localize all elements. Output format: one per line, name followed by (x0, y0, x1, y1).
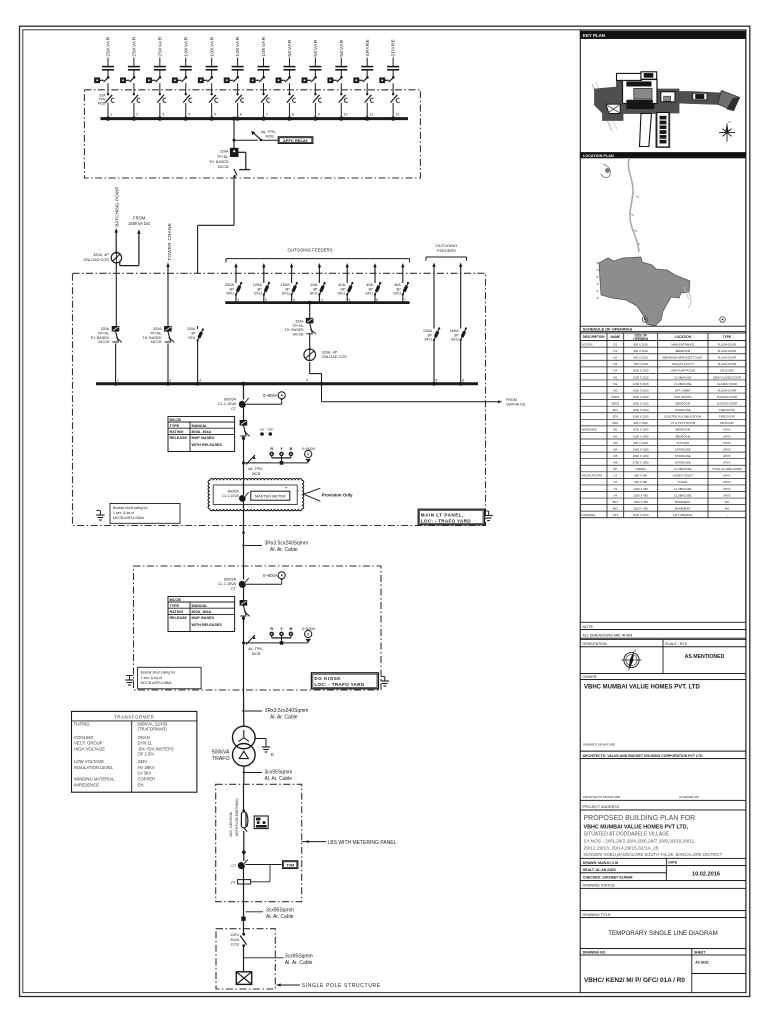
svg-text:SITUATED AT DODDABELE VILLAGE: SITUATED AT DODDABELE VILLAGE (584, 831, 671, 837)
svg-text:BASEMENT: BASEMENT (675, 506, 691, 510)
svg-text:HV 28KV: HV 28KV (138, 765, 155, 770)
svg-text:FLUSH DOOR: FLUSH DOOR (718, 388, 736, 392)
feeder arrow: FROM 160KVA DG (120, 216, 151, 266)
transformer earth E (255, 739, 274, 758)
svg-text:DESCRIPTION: DESCRIPTION (583, 335, 605, 339)
svg-text:SFU: SFU (188, 336, 196, 340)
svg-text:W7: W7 (613, 467, 618, 471)
DG kiosk enclosure (dash-dot) (134, 566, 382, 690)
svg-text:900 X 1200: 900 X 1200 (634, 441, 649, 445)
label 4A, TPN, MCB (261, 130, 276, 139)
svg-text:10.02.2016: 10.02.2016 (692, 872, 720, 878)
svg-text:TEMPORARY SINGLE LINE DIAGRAM: TEMPORARY SINGLE LINE DIAGRAM (608, 930, 717, 937)
phase indicator lamps R Y B (269, 626, 293, 644)
svg-text:TYPE: TYPE (170, 424, 180, 428)
svg-text:9: 9 (318, 112, 320, 116)
svg-text:1200 X 2100: 1200 X 2100 (633, 375, 649, 379)
svg-text:LOC: - TRAFO YARD: LOC: - TRAFO YARD (421, 519, 471, 524)
svg-text:MANUAL: MANUAL (192, 604, 209, 608)
svg-text:2: 2 (170, 379, 172, 383)
cable label 3cx95Sqmm (trafo to LBS) (243, 766, 293, 784)
phase indicator lamps R Y B (269, 446, 293, 465)
svg-text:FROM: FROM (133, 216, 146, 221)
TVM meter box (283, 861, 298, 869)
svg-text:VENTILATORS: VENTILATORS (582, 474, 603, 478)
svg-text:FLUSH DOOR: FLUSH DOOR (718, 349, 736, 353)
ONLOAD COS 320A 4P (changeover) (111, 251, 121, 263)
svg-text:Y: Y (280, 446, 283, 451)
cable label 3cx95Sqmm (LBS to COS) (246, 908, 294, 920)
wire to TVM meter (246, 864, 282, 866)
svg-text:Al. Ar. Cable: Al. Ar. Cable (266, 914, 294, 920)
svg-text:800A, 36kA: 800A, 36kA (192, 430, 212, 434)
ground (DG kiosk left) (125, 676, 133, 686)
svg-text:MS: MS (725, 506, 729, 510)
svg-text:CT: CT (231, 587, 237, 591)
svg-text:320A: 320A (295, 319, 304, 323)
DG KIOSK label box (311, 673, 378, 689)
busbar rating note box (main panel) (110, 504, 180, 524)
capacitor feeder branch 1: 25KVAR (95, 36, 115, 121)
wire: lamp/voltmeter bus (242, 461, 308, 464)
svg-text:3: 3 (199, 379, 201, 383)
KEY PLAN header bar (580, 31, 746, 39)
svg-text:--: -- (726, 513, 728, 517)
svg-text:MCCB: MCCB (170, 418, 182, 422)
svg-text:RATING: RATING (74, 722, 90, 727)
svg-text:OPENING: OPENING (582, 513, 597, 517)
svg-text:11: 11 (370, 112, 374, 116)
svg-text:OWNER'S SIGNATURE: OWNER'S SIGNATURE (583, 742, 615, 746)
svg-text:OUTGOING FEEDERS: OUTGOING FEEDERS (288, 248, 333, 253)
long outgoing feeder 160A 3P SFU (450, 263, 467, 386)
main LT panel enclosure (dash-dot) (73, 273, 486, 525)
svg-text:D3: D3 (614, 362, 618, 366)
svg-text:TP+NL: TP+NL (150, 331, 161, 335)
cable label 3Rx3.5cx240Sqmm (panel to kiosk) (242, 531, 308, 566)
svg-text:0~800A: 0~800A (263, 393, 278, 398)
svg-text:**: ** (284, 486, 288, 491)
svg-text:900 X 2100: 900 X 2100 (634, 349, 649, 353)
svg-text:FEEDERS: FEEDERS (437, 248, 456, 253)
svg-text:1000 X 2100: 1000 X 2100 (633, 369, 649, 373)
svg-text:2100 X 450: 2100 X 450 (634, 506, 649, 510)
svg-text:3cx95Sqmm: 3cx95Sqmm (265, 770, 293, 776)
svg-text:VBHC/ KEN2/ M/ P/ GFC/ 01A / R: VBHC/ KEN2/ M/ P/ GFC/ 01A / R0 (584, 977, 685, 984)
tie line: FROM 160KVA DG (322, 384, 526, 407)
AS MENTIONED (685, 654, 725, 660)
svg-text:LIBS PUMP ROOM: LIBS PUMP ROOM (671, 369, 696, 373)
svg-text:E: E (271, 752, 274, 757)
PROJECT ADDRESS row (580, 800, 746, 810)
svg-text:900 X 1500: 900 X 1500 (634, 421, 649, 425)
svg-text:SFU: SFU (393, 291, 401, 296)
label 320A TP+NL TH. BASED MCCB (209, 150, 229, 170)
svg-text:SFU: SFU (226, 291, 234, 296)
svg-text:MUP. BASED: MUP. BASED (192, 436, 215, 440)
svg-text:BV2: BV2 (613, 506, 619, 510)
location plan drawing (597, 159, 726, 326)
svg-text:FIRE DOOR: FIRE DOOR (719, 415, 735, 419)
drawing no cell (580, 955, 746, 993)
svg-text:TOTAL GLAZED WORK: TOTAL GLAZED WORK (712, 467, 742, 471)
date value cell (666, 866, 745, 881)
DRAWING TITLE row (580, 911, 746, 918)
svg-text:WD1: WD1 (612, 421, 619, 425)
svg-text:(WITH FUSE EARTHING): (WITH FUSE EARTHING) (235, 798, 239, 836)
svg-text:1 sec. & ka of: 1 sec. & ka of (141, 676, 162, 680)
architects signature cell (580, 759, 746, 801)
TRANSFORMER data table (72, 711, 197, 792)
CT 800/5A CL:1.10VA (inside cloud) (222, 490, 249, 502)
svg-text:STAIRCASE: STAIRCASE (675, 461, 691, 465)
SCALE / CHECKED rows (580, 866, 666, 881)
title block column borders (580, 30, 746, 993)
svg-text:29/12,29/13, 29/14,29/15,32/1A: 29/12,29/13, 29/14,29/15,32/1A ,25 (584, 845, 659, 851)
svg-text:SFU: SFU (451, 337, 459, 342)
svg-text:BEDROOM: BEDROOM (676, 349, 691, 353)
right OUTGOING FEEDERS bracket and title (426, 243, 467, 261)
svg-text:B: B (289, 446, 292, 451)
wire into master meter cloud (243, 463, 245, 531)
svg-text:TYPE: TYPE (723, 335, 731, 339)
svg-text:ARCHITECTS SIGNATURE: ARCHITECTS SIGNATURE (583, 795, 620, 799)
svg-text:CLUBHOUSE: CLUBHOUSE (674, 487, 692, 491)
wire with branch cable label (244, 946, 313, 972)
svg-text:10: 10 (344, 112, 348, 116)
svg-text:6: 6 (462, 378, 464, 382)
svg-text:4: 4 (306, 378, 308, 382)
metering relay box (254, 816, 268, 829)
svg-text:TH. BASED: TH. BASED (285, 328, 304, 332)
svg-text:OWNER:: OWNER: (583, 675, 598, 679)
svg-text:320A: 320A (220, 150, 229, 154)
feeder arrow: BATCHING POINT (115, 186, 120, 252)
wire (243, 407, 245, 420)
voltmeter 0~500V (302, 626, 316, 643)
wire: batching/COS down into panel (115, 263, 117, 326)
svg-text:BASEMENT: BASEMENT (675, 500, 691, 504)
capacitor panel enclosure (dash-dot) (84, 90, 420, 178)
svg-text:CLUBHOUSE: CLUBHOUSE (674, 382, 692, 386)
svg-text:BATCHING POINT: BATCHING POINT (115, 186, 120, 226)
svg-text:KEY PLAN: KEY PLAN (583, 33, 605, 38)
svg-text:4A, TPN,: 4A, TPN, (248, 467, 263, 471)
wire: DG kiosk exit (243, 643, 245, 690)
svg-text:D2: D2 (614, 356, 618, 360)
svg-text:Al. Ar. Cable: Al. Ar. Cable (270, 547, 298, 553)
MCB 4A TPN tap (246, 635, 263, 656)
wire: incomer jog to main bus (306, 362, 321, 384)
svg-text:W3: W3 (613, 441, 618, 445)
svg-text:5: 5 (435, 378, 437, 382)
LBS fuse (241, 809, 246, 827)
svg-text:800/5A: 800/5A (224, 398, 237, 402)
svg-text:CT: CT (231, 864, 237, 868)
svg-text:600 X 450: 600 X 450 (634, 474, 647, 478)
svg-text:VBHC MUMBAI VALUE HOMES PVT. L: VBHC MUMBAI VALUE HOMES PVT. LTD (584, 685, 700, 691)
svg-text:DG KIOSK: DG KIOSK (314, 676, 341, 681)
svg-text:MAIN ENTRANCE: MAIN ENTRANCE (671, 342, 694, 346)
svg-text:500kVA: 500kVA (212, 750, 230, 756)
OWNER row (580, 674, 746, 680)
APFC RELAY box (261, 137, 313, 144)
ground (main panel left) (96, 511, 104, 521)
svg-text:VECT. GROUP: VECT. GROUP (74, 741, 103, 746)
svg-text:5KVAR: 5KVAR (313, 39, 319, 56)
svg-text:1000 X 2100: 1000 X 2100 (633, 415, 649, 419)
CT 800/5A (218, 398, 249, 411)
svg-text:800/5A: 800/5A (224, 578, 237, 582)
outgoing feeder bus (225, 301, 409, 304)
svg-text:Al. Ar. Cable: Al. Ar. Cable (265, 776, 293, 782)
label LBS 11KV/630A rotated (229, 798, 239, 836)
MCCB 320A TP+NL (capacitor panel incomer) (230, 148, 250, 178)
PT with link to TVM (231, 865, 270, 886)
svg-text:1200 X 450: 1200 X 450 (634, 500, 649, 504)
pole structure (box with X) (236, 972, 251, 985)
wire (243, 587, 245, 600)
svg-text:D1: D1 (614, 349, 618, 353)
svg-text:Al. Ar. Cable: Al. Ar. Cable (270, 715, 298, 721)
svg-text:LOCATION PLAN: LOCATION PLAN (583, 154, 614, 158)
svg-text:DRAWN: MANJU C.M: DRAWN: MANJU C.M (583, 861, 618, 865)
svg-text:W2: W2 (613, 434, 618, 438)
svg-text:200A: 200A (230, 938, 239, 942)
svg-text:UPVC: UPVC (723, 434, 731, 438)
junction square (241, 917, 245, 921)
svg-text:PT: PT (231, 881, 236, 885)
svg-text:VARIES: VARIES (636, 467, 646, 471)
MCCB 320A TP+NL at x=115.6 (90, 326, 122, 384)
svg-text:10KVAR: 10KVAR (209, 36, 215, 56)
outgoing feeder 1: 200A 3P SFU (225, 263, 242, 303)
outgoing feeder 3: 160A 3P SFU (281, 263, 298, 303)
svg-text:(TRAFORMAR): (TRAFORMAR) (138, 727, 168, 732)
COS 11KV 200A switch (230, 933, 247, 947)
svg-text:900 X 2100: 900 X 2100 (634, 356, 649, 360)
svg-text:10KVAR: 10KVAR (235, 36, 241, 56)
wire: main vertical drop (243, 384, 245, 400)
wire (243, 921, 245, 933)
ground (DG kiosk right) (381, 677, 389, 687)
capacitor feeder branch 10: 5KVAR (328, 39, 348, 121)
svg-text:ALL DIMENSIONS ARE IN MM: ALL DIMENSIONS ARE IN MM (583, 633, 633, 637)
incomer MCCB 320A TP+NL from feeder bus (285, 301, 316, 350)
outgoing feeder 6: 40A 3P SFU (365, 263, 381, 303)
MCCB 320A TP+NL at x=168.0 (143, 326, 175, 384)
svg-text:SFU: SFU (365, 291, 373, 296)
svg-text:5: 5 (214, 112, 216, 116)
svg-text:1200 X 2100: 1200 X 2100 (633, 513, 649, 517)
svg-text:MCB: MCB (266, 134, 275, 138)
svg-text:W4D1: W4D1 (611, 395, 619, 399)
svg-text:CHECKED: SANJEEV KUMAR: CHECKED: SANJEEV KUMAR (583, 876, 633, 880)
svg-text:AS MENTIONED: AS MENTIONED (685, 654, 725, 660)
MCB 4A TPN tap switch (233, 131, 263, 142)
svg-text:SFU: SFU (254, 291, 262, 296)
DRAWN / DATE rows (580, 858, 746, 880)
wire: cap panel down and jog left (198, 176, 234, 273)
capacitor feeder branch 8: 5KVAR (276, 39, 296, 121)
svg-text:ONLOAD COS: ONLOAD COS (83, 258, 109, 262)
svg-text:3Rx3.5cx240Sqmm: 3Rx3.5cx240Sqmm (265, 708, 309, 714)
main LT bus (96, 379, 478, 386)
svg-text:5KVAR: 5KVAR (287, 39, 293, 56)
MCCB data table (168, 597, 235, 632)
svg-text:COS: COS (231, 943, 240, 947)
svg-text:WINDOWS: WINDOWS (582, 428, 597, 432)
svg-text:RELEASE: RELEASE (170, 616, 188, 620)
outgoing feeder 7: 40A 3P SFU (393, 263, 409, 303)
svg-text:2700 X 1200: 2700 X 1200 (633, 461, 649, 465)
project address block (580, 810, 746, 858)
svg-text:SFU: SFU (310, 291, 318, 296)
svg-text:SHEET: SHEET (694, 951, 706, 955)
svg-text:FD1: FD1 (613, 408, 619, 412)
svg-text:MCCB.s/SFU=36kA: MCCB.s/SFU=36kA (141, 681, 173, 685)
MAIN LT PANEL label box (418, 509, 484, 525)
svg-text:800/5A: 800/5A (228, 490, 240, 494)
MCCB 800A (main breaker) (240, 420, 250, 463)
svg-text:D1: D1 (614, 342, 618, 346)
svg-text:RATING: RATING (170, 610, 184, 614)
svg-text:5%: 5% (138, 782, 144, 787)
svg-text:R: R (270, 446, 273, 451)
svg-text:25KVAR: 25KVAR (106, 36, 112, 56)
svg-text:INSULATION LEVEL: INSULATION LEVEL (74, 765, 114, 770)
svg-text:FLUSH DOOR: FLUSH DOOR (718, 342, 736, 346)
svg-text:ARCHITECTS: VALUE AND BUDGET: ARCHITECTS: VALUE AND BUDGET HOUSING COR… (583, 754, 704, 758)
svg-text:MS DOOR: MS DOOR (720, 369, 733, 373)
svg-text:TOILETS & DUTY: TOILETS & DUTY (672, 362, 695, 366)
outgoing feeder 2: 125A 3P SFU (253, 263, 270, 303)
svg-text:(LICENSE NO): (LICENSE NO) (679, 795, 699, 799)
svg-text:4: 4 (188, 112, 190, 116)
svg-text:UPVC: UPVC (723, 493, 731, 497)
svg-text:V1: V1 (614, 474, 618, 478)
DRAWING NO / SHEET row (580, 949, 746, 993)
svg-text:1000 X 2100: 1000 X 2100 (633, 408, 649, 412)
svg-text:10KVAR: 10KVAR (183, 36, 189, 56)
outgoing feeder 5: 40A 3P SFU (337, 263, 353, 303)
ammeter 0~800A (246, 392, 285, 405)
svg-text:160KVA DG: 160KVA DG (128, 221, 150, 226)
svg-text:MCCB.s/SFU=36kA: MCCB.s/SFU=36kA (113, 516, 145, 520)
svg-text:DRAWING TITLE:: DRAWING TITLE: (583, 913, 612, 917)
svg-text:Provision Only: Provision Only (322, 492, 354, 497)
leader: SINGLE POLE STRUCTURE (277, 983, 381, 989)
svg-text:SINGLE POLE STRUCTURE: SINGLE POLE STRUCTURE (302, 983, 381, 989)
svg-text:1200 X 450: 1200 X 450 (634, 487, 649, 491)
svg-text:DATE: DATE (668, 860, 678, 864)
svg-text:W5: W5 (613, 454, 618, 458)
svg-text:B: B (289, 626, 292, 631)
svg-text:LIFT LOBBY: LIFT LOBBY (675, 388, 691, 392)
svg-text:600 X 450: 600 X 450 (634, 480, 647, 484)
LBS switch blade (244, 813, 248, 832)
COS enclosure (dash-dot) (216, 929, 275, 989)
svg-text:FD2: FD2 (613, 415, 619, 419)
svg-text:MANUAL: MANUAL (192, 424, 209, 428)
MCB 4A TPN tap (246, 455, 263, 476)
svg-text:COOLING: COOLING (74, 735, 93, 740)
svg-text:FLUSH DOOR: FLUSH DOOR (718, 356, 736, 360)
capacitor feeder branch 3: 25KVAR (147, 36, 167, 121)
MASTER METER box (251, 486, 300, 501)
svg-text:W4: W4 (613, 447, 618, 451)
svg-text:CT: CT (231, 407, 237, 411)
svg-text:SLIDING DOOR: SLIDING DOOR (717, 395, 737, 399)
LOCATION PLAN header bar (580, 153, 746, 158)
svg-text:1: 1 (117, 379, 119, 383)
svg-text:LV 3KV: LV 3KV (138, 770, 152, 775)
svg-text:MCCB: MCCB (218, 165, 229, 169)
capacitor feeder branch 11: SPARE (354, 39, 374, 121)
svg-text:TRANSFORMER: TRANSFORMER (114, 714, 155, 719)
svg-text:KITCHEN: KITCHEN (677, 441, 689, 445)
svg-text:2: 2 (136, 112, 138, 116)
wire into LBS (243, 784, 245, 809)
svg-text:N: N (729, 120, 731, 124)
svg-text:25KVAR: 25KVAR (132, 36, 138, 56)
svg-text:W5D2: W5D2 (611, 402, 619, 406)
capacitor feeder branch 2: 25KVAR (121, 36, 141, 121)
svg-text:320A: 320A (187, 327, 196, 331)
svg-text:MUP. BASED: MUP. BASED (192, 616, 215, 620)
svg-text:WITH RELEASES: WITH RELEASES (192, 623, 223, 627)
svg-text:MCB: MCB (98, 102, 106, 106)
MCCB 800A (main breaker) (240, 600, 250, 643)
svg-text:UPVC: UPVC (723, 428, 731, 432)
svg-text:ORIENTATION:: ORIENTATION: (583, 642, 608, 646)
svg-text:3: 3 (162, 112, 164, 116)
svg-text:Y: Y (280, 626, 283, 631)
svg-text:NOTE:: NOTE: (583, 625, 595, 629)
drawing status empty cell (580, 888, 746, 910)
svg-text:W2: W2 (613, 382, 618, 386)
MCCB data table (168, 417, 235, 452)
svg-text:MS: MS (725, 500, 729, 504)
feeder arrow: TOWER CRANE (166, 223, 172, 326)
svg-text:TP+NL: TP+NL (98, 331, 109, 335)
svg-text:3cx95Sqmm: 3cx95Sqmm (266, 908, 294, 914)
svg-text:1500 X 2100: 1500 X 2100 (633, 402, 649, 406)
svg-text:ELECTRICAL/CABLE ROOM: ELECTRICAL/CABLE ROOM (665, 415, 702, 419)
outgoing feeder 4: 63A 3P SFU (310, 263, 326, 303)
svg-text:CLUBHOUSE: CLUBHOUSE (674, 493, 692, 497)
svg-text:11KV: 11KV (230, 933, 239, 937)
svg-text:WITH RELEASES: WITH RELEASES (192, 443, 223, 447)
svg-text:900 X 2100: 900 X 2100 (634, 342, 649, 346)
svg-text:TP+NL: TP+NL (292, 324, 303, 328)
svg-text:SPARE: SPARE (365, 39, 371, 57)
NOTE row (580, 622, 746, 629)
svg-text:STAIRCASE: STAIRCASE (675, 454, 691, 458)
svg-text:GLAZED DOOR: GLAZED DOOR (717, 382, 737, 386)
svg-text:RELEASE: RELEASE (170, 436, 188, 440)
svg-text:320A: 320A (101, 327, 110, 331)
svg-text:4A, TPN,: 4A, TPN, (261, 130, 276, 134)
capacitor feeder branch 4: 10KVAR (172, 36, 192, 121)
svg-text:MCB: MCB (252, 472, 261, 476)
ONLOAD COS 320A, 4P (incomer) (304, 348, 347, 361)
svg-text:W1: W1 (613, 375, 618, 379)
svg-text:Al. Ar. Cable: Al. Ar. Cable (285, 960, 313, 966)
svg-text:320A, 4P: 320A, 4P (322, 350, 338, 354)
transformer 500KVA (wye/delta) (212, 726, 255, 766)
wire into DG kiosk (243, 566, 245, 580)
